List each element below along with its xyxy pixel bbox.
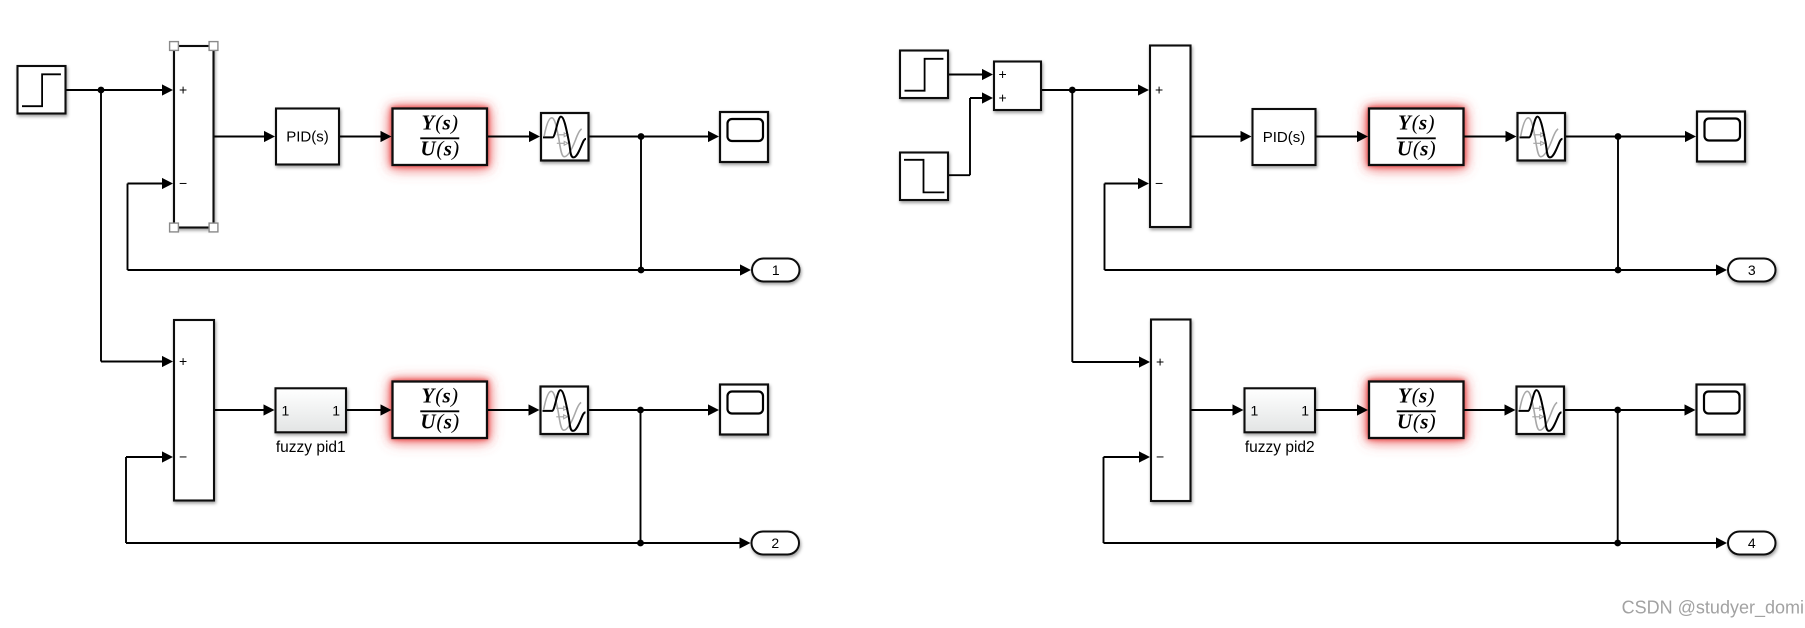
feedback wire up to sum4 minus input [1104,451,1151,543]
sum block Sum (selected) [174,46,214,228]
wire sum2 to fuzzy pid1 [214,404,275,415]
wire transport delay 3 to scope 3 [1565,131,1696,142]
svg-text:U(s): U(s) [1397,409,1436,433]
svg-text:CSDN @studyer_domi: CSDN @studyer_domi [1622,598,1804,619]
svg-text:+: + [179,353,187,369]
wire branch down to sum2 plus input [101,90,173,367]
transfer fcn Y(s)/U(s) plant 4 (highlighted) [1369,382,1464,439]
svg-text:4: 4 [1748,535,1756,551]
scope 1 [720,112,768,162]
outport 4 [1728,532,1776,555]
red highlight glow of plant 1 [392,108,489,167]
transport delay 4 [1517,387,1565,435]
svg-text:PID(s): PID(s) [286,129,329,146]
svg-text:1: 1 [282,402,290,418]
wire step1 to add block [948,69,993,80]
feedback wire to outport 1 [128,264,752,275]
svg-text:U(s): U(s) [420,136,459,160]
svg-text:1: 1 [1251,402,1259,418]
wire transport delay 4 to scope 4 [1564,404,1696,415]
svg-text:Y(s): Y(s) [1398,384,1435,408]
wire plant 4 to transport delay 4 [1463,404,1516,415]
transport delay 1 [541,113,589,161]
transfer fcn Y(s)/U(s) plant 2 (highlighted) [393,382,488,439]
scope 2 [720,385,768,435]
add block Add [994,62,1041,111]
wire PID to plant 1 [339,131,392,142]
step source Step1 [900,51,948,99]
red highlight glow of plant 4 [1368,381,1465,440]
svg-text:1: 1 [772,262,780,278]
feedback wire to outport 2 [126,537,751,548]
red highlight glow of plant 2 [392,381,489,440]
wire branch down to sum4 plus input [1072,90,1150,368]
subsystem fuzzy pid1 [276,388,347,432]
sum block Sum2 [1150,46,1191,228]
svg-text:U(s): U(s) [1397,136,1436,160]
svg-text:Y(s): Y(s) [1398,111,1435,135]
wire fuzzy pid2 to plant 4 [1315,404,1369,415]
wire sum1 to PID [214,131,276,142]
svg-text:−: − [1156,449,1164,465]
svg-text:−: − [179,449,187,465]
selection handles of sum block Sum (selected) [170,42,218,232]
wire branch down from scope line to outport line 1 [640,137,642,271]
PID controller PID(s) 2 [1253,109,1316,165]
sum block Sum3 [1151,320,1191,502]
red highlight glow of plant 3 [1368,108,1465,167]
svg-text:1: 1 [332,402,340,418]
feedback wire up to sum1 minus input [128,178,174,270]
svg-text:PID(s): PID(s) [1263,129,1306,146]
feedback wire up to sum3 minus input [1105,178,1150,270]
transfer fcn Y(s)/U(s) plant 1 (highlighted) [393,109,488,166]
svg-text:3: 3 [1748,262,1756,278]
wire branch down to outport line 3 [1617,137,1619,271]
svg-text:Y(s): Y(s) [421,111,458,135]
svg-text:fuzzy pid2: fuzzy pid2 [1245,439,1315,456]
svg-text:−: − [179,175,187,191]
wire plant 2 to transport delay 2 [487,404,540,415]
wire PID 2 to plant 3 [1316,131,1369,142]
svg-text:1: 1 [1301,402,1309,418]
wire transport delay 2 to scope 2 [588,404,719,415]
wire add block to sum3 plus input [1041,84,1149,95]
svg-text:Y(s): Y(s) [421,384,458,408]
wire fuzzy pid1 to plant 2 [346,404,392,415]
scope 4 [1697,385,1745,435]
transfer fcn Y(s)/U(s) plant 3 (highlighted) [1369,109,1464,166]
wire step to sum1 plus input [66,84,174,95]
wire plant 3 to transport delay 3 [1464,131,1517,142]
wire branch down to outport line 4 [1617,410,1619,543]
svg-text:+: + [999,90,1007,106]
transport delay 2 [541,387,589,435]
step source Step2 (falling) [900,153,948,201]
outport 1 [752,259,800,282]
step source Step [18,66,66,114]
svg-text:−: − [1155,175,1163,191]
svg-text:+: + [179,82,187,98]
wire branch down to outport line 2 [640,410,642,543]
svg-text:+: + [999,66,1007,82]
feedback wire up to sum2 minus input [126,451,173,543]
wire step2 to add block second input [948,92,993,175]
svg-text:U(s): U(s) [420,409,459,433]
svg-text:+: + [1155,82,1163,98]
svg-text:+: + [1156,354,1164,370]
outport 3 [1728,259,1776,282]
outport 2 [752,532,800,555]
feedback wire to outport 3 [1105,264,1728,275]
svg-text:2: 2 [771,535,779,551]
wire plant 1 to transport delay 1 [487,131,540,142]
transport delay 3 [1518,113,1566,161]
wire sum4 to fuzzy pid2 [1191,404,1244,415]
sum block Sum1 [174,320,214,501]
wire sum3 to PID 2 [1191,131,1252,142]
wire transport delay 1 to scope 1 [589,131,720,142]
scope 3 [1697,112,1745,162]
subsystem fuzzy pid2 [1245,388,1316,432]
feedback wire to outport 4 [1104,537,1728,548]
PID controller PID(s) [276,109,339,165]
svg-text:fuzzy pid1: fuzzy pid1 [276,439,346,456]
